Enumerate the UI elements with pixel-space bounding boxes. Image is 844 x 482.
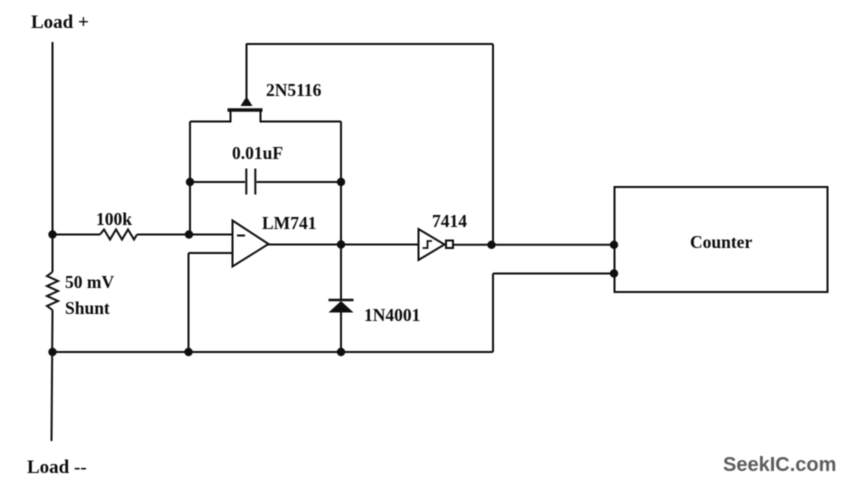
svg-text:Counter: Counter xyxy=(690,232,752,252)
resistor R1 100k zigzag xyxy=(100,230,137,240)
wire top rail xyxy=(247,43,494,45)
node dot capacitor left junction xyxy=(186,178,194,186)
wire diode anode to bottom rail xyxy=(340,312,342,352)
node dot bottom rail middle junction xyxy=(184,348,192,356)
wire op-amp noninverting input stub xyxy=(189,252,233,254)
inverter U2 7414 triangle xyxy=(419,229,445,260)
node dot capacitor right junction xyxy=(337,178,345,186)
svg-text:1N4001: 1N4001 xyxy=(364,305,420,325)
transistor Q1 channel bar xyxy=(228,108,263,111)
wire right vertical upper (top rail down to 7414 output node) xyxy=(492,44,494,245)
node dot counter return junction xyxy=(610,269,618,277)
node dot 7414 output feedback junction xyxy=(487,241,495,249)
op-amp U1 LM741 triangle xyxy=(233,221,269,267)
node dot inverting input junction xyxy=(185,230,193,238)
node dot counter input junction xyxy=(610,241,618,249)
transistor Q1 drain stub + lead to right branch xyxy=(261,111,342,122)
wire op-amp output to node xyxy=(268,244,418,246)
wire capacitor left lead xyxy=(190,181,245,183)
wire 100k to inverting node xyxy=(137,234,232,236)
node dot bottom rail diode junction xyxy=(337,348,345,356)
svg-text:0.01uF: 0.01uF xyxy=(232,143,283,163)
svg-text:Load +: Load + xyxy=(31,12,89,33)
svg-text:50 mV: 50 mV xyxy=(65,272,114,292)
counter box xyxy=(615,187,828,292)
wire bottom rail xyxy=(53,351,494,353)
wire vertical right feedback branch (transistor drain down to output node) xyxy=(340,122,342,245)
svg-text:2N5116: 2N5116 xyxy=(266,80,322,100)
svg-text:SeekIC.com: SeekIC.com xyxy=(723,454,836,476)
resistor R2 shunt zigzag xyxy=(47,272,58,310)
wire output node down to diode cathode xyxy=(340,245,342,301)
wire vertical left feedback branch (transistor source to node) xyxy=(189,122,191,235)
inverter U2 output bubble xyxy=(446,241,453,249)
wire right vertical lower (bottom rail up to counter return) xyxy=(492,274,494,353)
capacitor C1 plates xyxy=(245,169,247,195)
wire capacitor right lead xyxy=(257,181,342,183)
diode D1 anode triangle (points up) xyxy=(329,301,354,313)
op-amp U1 minus sign (inverting input) xyxy=(237,235,245,237)
svg-text:LM741: LM741 xyxy=(262,213,316,233)
node dot shunt top junction xyxy=(48,230,56,238)
wire 7414 output to counter xyxy=(454,244,615,246)
node dot op-amp output junction xyxy=(337,240,345,248)
wire left vertical upper (Load+ down to shunt) xyxy=(52,42,54,272)
wire vertical noninverting input to bottom rail xyxy=(188,253,190,352)
svg-text:Shunt: Shunt xyxy=(65,298,110,318)
transistor Q1 gate arrow (points up) xyxy=(241,97,253,107)
wire counter return lead xyxy=(493,273,614,275)
transistor Q1 2N5116 gate lead from top rail xyxy=(246,44,248,100)
node dot bottom rail left junction xyxy=(48,348,56,356)
svg-text:7414: 7414 xyxy=(432,211,467,231)
inverter U2 hysteresis symbol xyxy=(423,241,433,248)
svg-text:100k: 100k xyxy=(96,209,132,229)
svg-text:Load --: Load -- xyxy=(27,457,87,478)
wire 100k input segment xyxy=(53,234,101,236)
diode D1 1N4001 cathode bar xyxy=(329,299,354,302)
transistor Q1 source stub + lead to left branch xyxy=(190,111,231,122)
wire left vertical lower (shunt down to Load-) xyxy=(52,310,53,441)
